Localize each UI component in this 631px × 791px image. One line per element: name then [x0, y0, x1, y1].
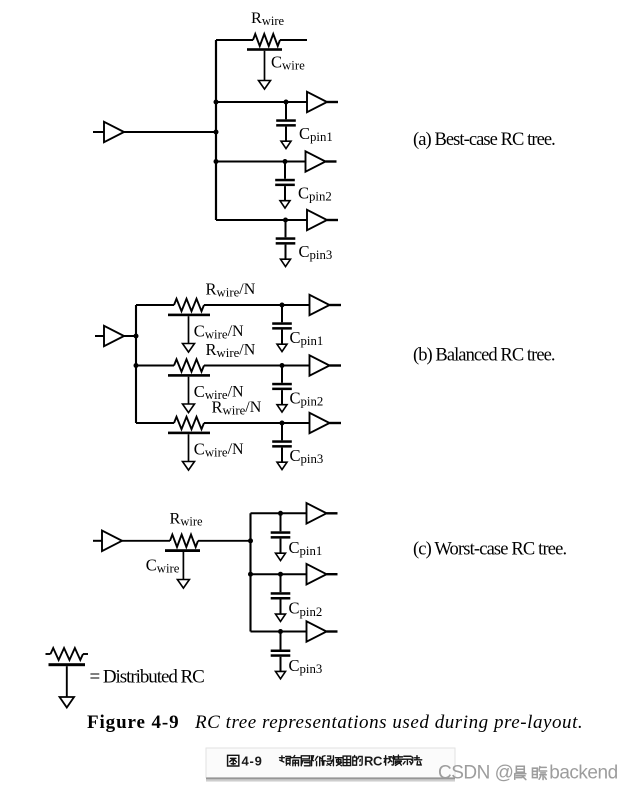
- svg-text:(b) Balanced RC tree.: (b) Balanced RC tree.: [413, 345, 555, 365]
- svg-text:(c) Worst-case RC tree.: (c) Worst-case RC tree.: [413, 539, 566, 559]
- svg-text:CSDN @: CSDN @: [438, 763, 513, 784]
- svg-text:4-9: 4-9: [242, 754, 263, 769]
- svg-text:RC tree representations used d: RC tree representations used during pre-…: [194, 712, 583, 733]
- svg-text:(a) Best-case RC tree.: (a) Best-case RC tree.: [413, 130, 555, 150]
- svg-text:= Distributed RC: = Distributed RC: [90, 667, 205, 688]
- svg-text:RC: RC: [364, 754, 383, 769]
- svg-text:backend: backend: [549, 763, 617, 784]
- svg-text:Figure 4-9: Figure 4-9: [87, 712, 180, 733]
